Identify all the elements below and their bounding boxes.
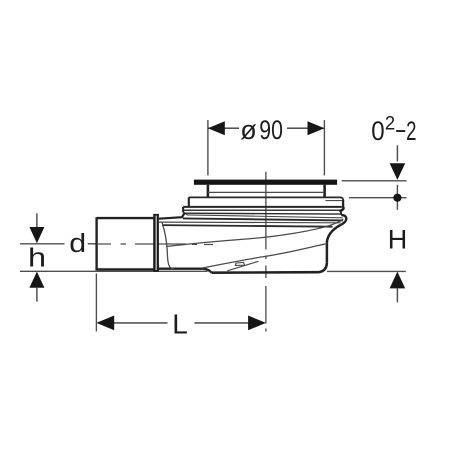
interior sweep lower: [203, 244, 326, 268]
body bottom line: [212, 271, 318, 274]
shelf bottom line: [157, 268, 203, 270]
bowl left curve: [162, 222, 174, 268]
dot vertical tick: [396, 185, 398, 210]
body right edge curve: [327, 225, 341, 244]
dimension ø 90 arrow left: [208, 121, 225, 135]
pipe axis centerline dash-dot: [98, 243, 213, 246]
svg-text:−2: −2: [395, 116, 416, 146]
dimension ø 90 line right segment: [287, 127, 324, 129]
svg-text:0: 0: [371, 116, 384, 146]
dimension L arrow right: [248, 316, 266, 331]
svg-text:d: d: [69, 228, 86, 257]
outlet pipe bottom: [97, 268, 154, 270]
dimension L arrow left: [96, 316, 114, 331]
trap vertical axis dash-dot: [265, 172, 267, 332]
dimension h arrow up tail: [36, 288, 38, 302]
body top inner thin line: [159, 221, 341, 224]
dot marker: [393, 194, 401, 202]
insert diagonal: [227, 261, 258, 271]
dimension H arrow tail: [396, 288, 398, 302]
seal bead right: [339, 211, 341, 215]
collar top extension line with dot: [349, 197, 407, 199]
dimension ø 90 line left segment: [208, 127, 239, 129]
insert tab: [235, 262, 244, 265]
interior sweep upper: [167, 219, 343, 247]
outlet pipe left end: [95, 217, 97, 270]
outlet pipe top: [97, 217, 154, 219]
body shoulder line: [159, 212, 185, 218]
svg-text:ø: ø: [240, 115, 256, 145]
collar ring line 1: [183, 206, 342, 208]
svg-text:90: 90: [259, 115, 283, 145]
collar left wall upper: [188, 197, 190, 207]
body upper edge line: [162, 225, 333, 227]
body top line: [183, 218, 343, 220]
band top line: [185, 212, 341, 215]
socket rim bar: [153, 214, 159, 272]
tolerance arrow down: [390, 163, 406, 180]
svg-text:h: h: [28, 244, 46, 273]
body bottom right corner: [318, 262, 327, 272]
flange top extension line: [342, 180, 407, 182]
collar ring line 2: [183, 209, 339, 211]
collar right inner thin line: [326, 200, 343, 202]
dimension H arrow up: [390, 272, 406, 289]
dimension ø 90 extension line right: [323, 120, 325, 175]
dimension ø 90 arrow right: [308, 121, 325, 135]
dimension h arrow down tail: [36, 213, 38, 227]
collar step line: [189, 197, 343, 200]
band left bevel diagonal: [183, 212, 188, 215]
svg-text:L: L: [172, 308, 188, 339]
socket rim slit: [155, 216, 157, 270]
dimension H bottom extension line: [327, 270, 406, 272]
dimension L line right segment: [194, 322, 250, 324]
baseline under trap left segment: [20, 270, 208, 272]
neck left wall: [207, 185, 210, 197]
dimension L extension line left: [95, 274, 97, 332]
collar left wall lower: [182, 207, 184, 212]
body right wall: [326, 244, 329, 262]
dimension L line left segment: [112, 322, 168, 324]
band inner taper diagonal: [187, 215, 343, 218]
dimension h arrow up: [29, 272, 44, 288]
pipe axis line left segment: [20, 243, 65, 245]
dimension h arrow down: [29, 227, 44, 243]
pipe axis line short segment: [88, 243, 96, 245]
dimension ø 90 extension line left: [207, 120, 209, 175]
bottom step curve: [203, 269, 212, 273]
collar right wall: [342, 200, 344, 208]
svg-text:H: H: [388, 225, 408, 255]
tolerance leader tail: [396, 145, 398, 161]
flange plate: [194, 180, 337, 185]
svg-text:2: 2: [385, 112, 395, 134]
neck right wall: [323, 185, 326, 197]
seal bead bump: [341, 215, 346, 225]
collar right step diagonal: [339, 207, 343, 211]
neck inner line: [208, 191, 325, 193]
